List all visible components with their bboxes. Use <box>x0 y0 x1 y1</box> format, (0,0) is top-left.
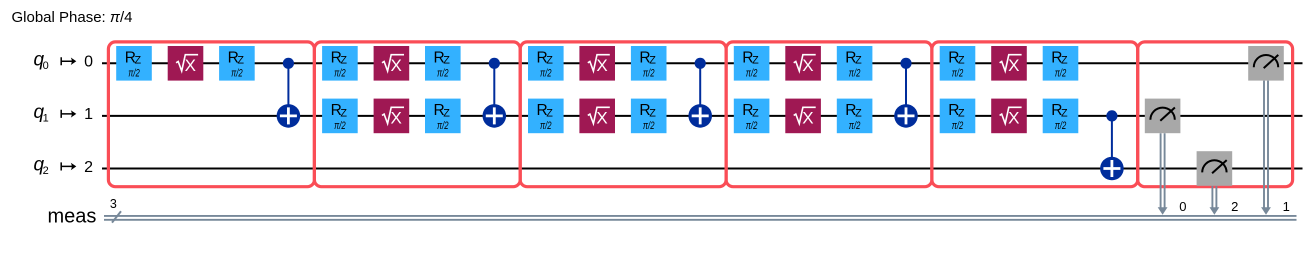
wire q1 <box>102 115 1303 117</box>
classical wire size slash <box>112 211 121 222</box>
svg-text:X: X <box>802 109 813 128</box>
svg-text:π/2: π/2 <box>437 120 449 132</box>
gate RZ(pi/2) #0 on q1 <box>837 99 873 134</box>
gate RZ(pi/2) #0 on q1 <box>322 99 358 134</box>
svg-text:π/2: π/2 <box>952 67 964 79</box>
gate RZ(pi/2) #0 on q0 <box>1043 46 1079 81</box>
svg-text:π/2: π/2 <box>231 67 243 79</box>
svg-text:π/2: π/2 <box>334 120 346 132</box>
svg-text:π/2: π/2 <box>1055 120 1067 132</box>
svg-text:Z: Z <box>340 55 347 67</box>
gate RZ(pi/2) #0 on q0 <box>631 46 667 81</box>
svg-text:X: X <box>391 109 402 128</box>
wire q0 <box>102 62 1303 64</box>
group box 2 <box>314 42 520 187</box>
gate RZ(pi/2) #0 on q1 <box>940 99 976 134</box>
group box 5 <box>932 42 1138 187</box>
qubit label q2 <box>34 155 94 178</box>
measure gate #2 on q2 <box>1197 151 1233 186</box>
svg-text:0: 0 <box>43 60 49 72</box>
CNOT #2 control q0 target q1 <box>483 58 507 128</box>
svg-text:π/2: π/2 <box>128 67 140 79</box>
svg-text:π/2: π/2 <box>746 120 758 132</box>
svg-text:X: X <box>391 56 402 75</box>
gate sqrt-X #0 on q1 <box>374 99 410 134</box>
group box 4 <box>726 42 932 187</box>
svg-text:Z: Z <box>1061 107 1068 119</box>
qubit label q1 <box>34 102 94 125</box>
svg-text:π/2: π/2 <box>952 120 964 132</box>
gate sqrt-X #0 on q1 <box>991 99 1027 134</box>
gate sqrt-X #0 on q0 <box>374 46 410 81</box>
svg-text:π/2: π/2 <box>437 67 449 79</box>
measure arrow q0 to clbit 1 <box>1261 81 1271 215</box>
svg-text:Z: Z <box>340 107 347 119</box>
qubit label q0 <box>34 49 94 72</box>
svg-text:π/2: π/2 <box>1055 67 1067 79</box>
gate RZ(pi/2) #0 on q0 <box>734 46 770 81</box>
gate RZ(pi/2) #0 on q0 <box>837 46 873 81</box>
svg-text:π/2: π/2 <box>643 120 655 132</box>
gate sqrt-X #0 on q0 <box>579 46 615 81</box>
svg-text:Z: Z <box>546 55 553 67</box>
svg-text:2: 2 <box>1231 199 1238 214</box>
svg-text:Z: Z <box>958 55 965 67</box>
svg-text:Z: Z <box>855 107 862 119</box>
svg-text:Z: Z <box>855 55 862 67</box>
svg-text:π/2: π/2 <box>849 120 861 132</box>
svg-text:π/2: π/2 <box>540 120 552 132</box>
CNOT #3 control q0 target q1 <box>688 58 712 128</box>
group box 1 <box>108 42 314 187</box>
gate RZ(pi/2) #1 on q0 <box>116 46 152 81</box>
measure arrow q2 to clbit 2 <box>1210 186 1220 215</box>
svg-text:Z: Z <box>752 55 759 67</box>
svg-text:Global Phase: π/4: Global Phase: π/4 <box>12 9 133 26</box>
gate RZ(pi/2) #0 on q1 <box>734 99 770 134</box>
svg-text:X: X <box>1008 56 1019 75</box>
svg-text:0: 0 <box>84 54 93 71</box>
svg-text:X: X <box>596 109 607 128</box>
gate sqrt-X #1 on q0 <box>168 46 204 81</box>
measure gate #1 on q1 <box>1145 99 1181 134</box>
svg-text:X: X <box>802 56 813 75</box>
gate RZ(pi/2) #0 on q0 <box>528 46 564 81</box>
svg-text:π/2: π/2 <box>849 67 861 79</box>
svg-text:1: 1 <box>1283 199 1290 214</box>
CNOT #1 control q0 target q1 <box>277 58 301 128</box>
svg-text:Z: Z <box>237 55 244 67</box>
svg-text:2: 2 <box>84 159 93 176</box>
gate RZ(pi/2) #0 on q1 <box>528 99 564 134</box>
svg-text:Z: Z <box>134 55 141 67</box>
svg-text:1: 1 <box>84 106 93 123</box>
gate sqrt-X #0 on q0 <box>785 46 821 81</box>
svg-text:Z: Z <box>752 107 759 119</box>
svg-text:Z: Z <box>649 55 656 67</box>
gate RZ(pi/2) #0 on q1 <box>631 99 667 134</box>
svg-text:1: 1 <box>43 113 49 125</box>
svg-text:Z: Z <box>649 107 656 119</box>
svg-text:meas: meas <box>48 206 97 228</box>
svg-text:3: 3 <box>110 197 117 211</box>
svg-text:Z: Z <box>1061 55 1068 67</box>
svg-text:0: 0 <box>1179 199 1186 214</box>
measure gate #3 on q0 <box>1248 46 1284 81</box>
gate sqrt-X #0 on q1 <box>785 99 821 134</box>
classical wire meas (double line) <box>104 216 1297 220</box>
CNOT #4 control q0 target q1 <box>894 58 918 128</box>
gate RZ(pi/2) #0 on q0 <box>322 46 358 81</box>
svg-text:π/2: π/2 <box>643 67 655 79</box>
svg-text:X: X <box>596 56 607 75</box>
group box 6 <box>1138 42 1293 187</box>
gate sqrt-X #0 on q1 <box>579 99 615 134</box>
svg-text:Z: Z <box>443 55 450 67</box>
gate RZ(pi/2) #0 on q0 <box>425 46 461 81</box>
gate RZ(pi/2) #0 on q1 <box>1043 99 1079 134</box>
CNOT #5 control q1 target q2 <box>1100 110 1124 180</box>
gate sqrt-X #0 on q0 <box>991 46 1027 81</box>
gate RZ(pi/2) #0 on q0 <box>940 46 976 81</box>
svg-text:Z: Z <box>546 107 553 119</box>
svg-text:π/2: π/2 <box>540 67 552 79</box>
group box 3 <box>520 42 726 187</box>
svg-text:X: X <box>185 56 196 75</box>
svg-text:2: 2 <box>43 165 49 177</box>
svg-text:π/2: π/2 <box>746 67 758 79</box>
measure arrow q1 to clbit 0 <box>1158 133 1168 215</box>
gate RZ(pi/2) #0 on q1 <box>425 99 461 134</box>
svg-text:π/2: π/2 <box>334 67 346 79</box>
svg-text:Z: Z <box>443 107 450 119</box>
gate RZ(pi/2) #2 on q0 <box>219 46 255 81</box>
svg-text:X: X <box>1008 109 1019 128</box>
svg-text:Z: Z <box>958 107 965 119</box>
wire q2 <box>102 168 1303 170</box>
